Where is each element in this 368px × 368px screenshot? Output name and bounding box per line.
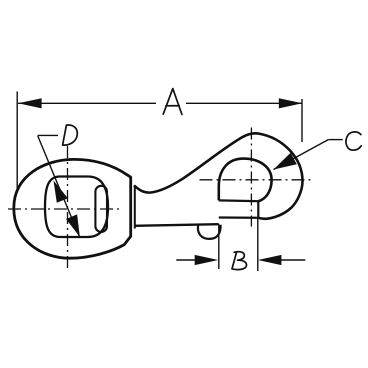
bolt gate top line: [219, 199, 258, 202]
snap body top edge and hook head outer contour: [134, 133, 303, 218]
centerline horizontal through hook head: [200, 179, 314, 181]
label B: [232, 252, 247, 270]
dimension A line right segment: [186, 102, 302, 104]
label D: [63, 125, 78, 145]
hook inner opening: [219, 159, 272, 202]
D leader diagonal: [38, 136, 80, 238]
dimension A right extension line: [301, 99, 303, 142]
bolt gate right edge: [257, 201, 259, 218]
centerline vertical through hook head: [250, 128, 252, 227]
dimension A line left segment: [18, 102, 156, 104]
swivel collar line 2: [134, 185, 136, 228]
dimension B left extension line: [218, 224, 220, 269]
dimension B right extension line: [257, 218, 259, 271]
swivel pin seen through slot: [95, 186, 107, 232]
dimension B left arrow line: [176, 259, 198, 261]
C leader horizontal: [328, 139, 342, 141]
bolt thumb knob: [198, 225, 221, 239]
dimension A right arrowhead: [279, 98, 303, 108]
dimension A left arrowhead: [18, 98, 41, 108]
dimension B left arrowhead: [195, 255, 219, 265]
D lower arrowhead: [66, 214, 80, 237]
label A: [163, 89, 182, 115]
D leader horizontal: [38, 134, 58, 136]
dimension B right arrow line: [278, 259, 305, 261]
swivel eye inner slot: [45, 177, 108, 238]
dimension B right arrowhead: [258, 255, 282, 265]
centerline horizontal through swivel eye: [8, 208, 121, 210]
C leader diagonal: [274, 140, 329, 170]
swivel eye outer ring: [14, 159, 131, 258]
bolt gate bottom line: [219, 216, 258, 219]
label C: [346, 132, 361, 150]
snap body bottom edge: [134, 224, 219, 226]
centerline vertical through swivel eye: [67, 146, 69, 272]
D upper arrowhead: [54, 181, 68, 203]
C arrowhead: [274, 153, 297, 170]
dimension A left extension line: [16, 92, 18, 191]
